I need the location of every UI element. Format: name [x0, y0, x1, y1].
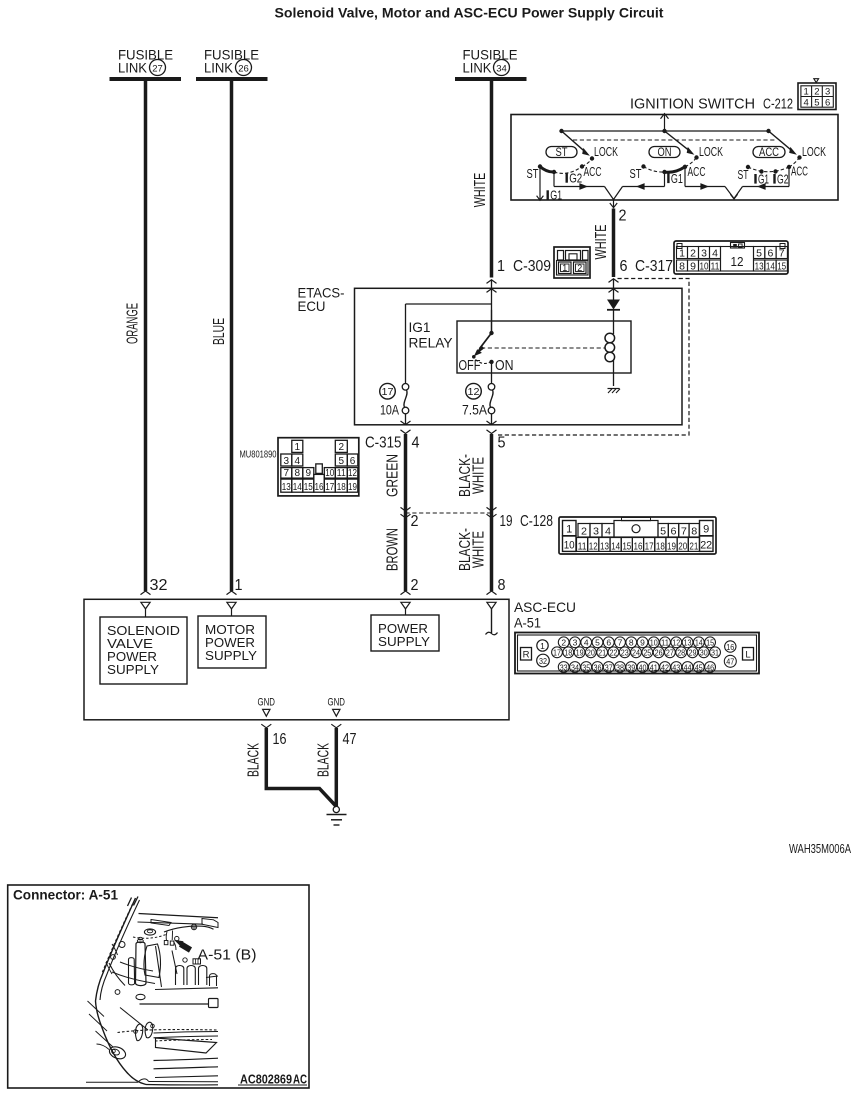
svg-text:C-309: C-309 [513, 258, 551, 275]
svg-text:20: 20 [587, 648, 595, 658]
svg-text:ON: ON [495, 357, 514, 374]
svg-text:2: 2 [411, 577, 419, 594]
intermediate connector dashed line [406, 512, 492, 514]
ETACS-ECU dashed enclosure [497, 279, 690, 436]
svg-text:ACC: ACC [791, 165, 808, 179]
svg-text:A-51: A-51 [514, 615, 541, 631]
connector crossing marks at pin 6 (C-317) [609, 279, 619, 293]
wire: fusible link 34 to ETACS-ECU (WHITE) [490, 79, 494, 278]
svg-text:ST: ST [630, 167, 642, 181]
svg-text:WAH35M006A: WAH35M006A [789, 841, 851, 856]
vehicle illustration: cowl and hood lines [138, 914, 219, 928]
section ON: contact arc [641, 158, 696, 175]
svg-text:32: 32 [150, 577, 168, 594]
svg-text:1: 1 [804, 87, 809, 98]
IG1 collector rail [554, 183, 789, 190]
svg-text:WHITE: WHITE [471, 457, 488, 494]
crossing mark pin 16 [261, 724, 271, 728]
svg-text:27: 27 [152, 64, 163, 75]
svg-text:IG1: IG1 [409, 319, 431, 335]
wire color label BLACK (16) [246, 743, 263, 777]
wire color label WHITE [593, 225, 610, 260]
svg-text:34: 34 [571, 662, 579, 672]
svg-text:2: 2 [577, 263, 582, 273]
section ON: terminal labels [630, 165, 706, 186]
svg-text:4: 4 [584, 638, 589, 648]
connector crossing marks at pin 1 (C-309) [487, 280, 497, 293]
svg-text:12: 12 [589, 540, 598, 552]
svg-text:A-51 (B): A-51 (B) [198, 947, 257, 964]
svg-text:ASC-ECU: ASC-ECU [514, 599, 576, 615]
svg-text:1: 1 [497, 258, 505, 275]
pin 8 entry with coil tail [486, 591, 498, 635]
svg-text:10: 10 [325, 468, 334, 479]
svg-text:42: 42 [661, 662, 669, 672]
svg-text:2: 2 [561, 638, 566, 648]
svg-text:ACC: ACC [759, 147, 779, 159]
svg-text:6: 6 [825, 97, 830, 108]
wire color label BLACK-WHITE [457, 454, 488, 497]
svg-text:3: 3 [284, 456, 290, 467]
output funnel to terminal 2 [605, 187, 623, 208]
svg-text:19: 19 [576, 648, 584, 658]
section ST: contact arc [538, 159, 592, 175]
relay coil [605, 310, 615, 386]
svg-text:9: 9 [640, 638, 645, 648]
svg-text:3: 3 [701, 247, 707, 259]
svg-text:9: 9 [703, 524, 709, 536]
svg-text:6: 6 [671, 526, 677, 538]
svg-text:18: 18 [337, 482, 346, 493]
pin 4 label [412, 435, 420, 452]
svg-text:16: 16 [726, 642, 734, 652]
svg-text:7: 7 [779, 247, 785, 259]
pin 1 label [235, 577, 243, 594]
svg-text:Connector: A-51: Connector: A-51 [13, 887, 118, 903]
svg-text:3: 3 [825, 87, 830, 98]
output funnel (ACC branch) [725, 187, 743, 200]
svg-text:17: 17 [325, 482, 334, 493]
svg-text:19: 19 [667, 540, 676, 552]
svg-text:G2: G2 [569, 172, 582, 186]
svg-text:8: 8 [629, 638, 634, 648]
wire color label GREEN [385, 454, 402, 497]
svg-text:8: 8 [679, 260, 685, 272]
svg-text:9: 9 [306, 468, 312, 479]
fusible link 26 [196, 47, 268, 80]
svg-text:4: 4 [605, 526, 611, 538]
svg-text:2: 2 [339, 442, 345, 453]
svg-text:10: 10 [650, 638, 658, 648]
A-51 (B) label [198, 947, 257, 964]
svg-text:ON: ON [658, 147, 672, 159]
relay OFF/ON contacts [459, 357, 514, 374]
svg-text:2: 2 [690, 247, 696, 259]
svg-text:21: 21 [689, 540, 698, 552]
svg-text:3: 3 [573, 638, 578, 648]
svg-text:LINK: LINK [118, 60, 148, 76]
svg-text:BLACK: BLACK [246, 743, 263, 777]
vehicle illustration: hood and A-pillar [96, 897, 140, 1002]
vehicle illustration: left fender details [106, 962, 145, 1000]
pin 2 label at ASC [411, 577, 419, 594]
svg-text:13: 13 [600, 540, 609, 552]
svg-text:ORANGE: ORANGE [125, 303, 142, 344]
svg-text:G1: G1 [671, 172, 683, 186]
svg-text:27: 27 [666, 648, 674, 658]
svg-text:33: 33 [560, 662, 568, 672]
svg-text:1: 1 [566, 524, 572, 536]
power supply block [371, 615, 439, 651]
svg-text:ACC: ACC [584, 165, 602, 179]
svg-text:16: 16 [273, 731, 287, 748]
svg-text:9: 9 [690, 260, 696, 272]
svg-text:25: 25 [643, 648, 651, 658]
svg-text:7.5A: 7.5A [462, 402, 487, 417]
svg-text:GND: GND [328, 696, 346, 708]
svg-text:WHITE: WHITE [471, 531, 488, 568]
ignition switch supply bus [559, 129, 770, 133]
interlock dashed line [573, 139, 777, 141]
svg-text:2: 2 [581, 526, 587, 538]
switch section ST: position oval [546, 147, 577, 160]
wire: ETACS pin 4 to junction (GREEN) [404, 434, 408, 513]
svg-text:47: 47 [343, 731, 357, 748]
vehicle illustration: intake and engine top [155, 958, 218, 990]
svg-text:G1: G1 [550, 188, 562, 202]
IG1 relay box [457, 321, 631, 373]
svg-text:16: 16 [634, 540, 643, 552]
vehicle illustration: radiator support lines [120, 999, 218, 1031]
vehicle illustration: engine bay components [111, 924, 214, 987]
svg-text:7: 7 [681, 526, 687, 538]
connector location box [8, 885, 309, 1088]
svg-text:6: 6 [350, 456, 356, 467]
diagram code WAH35M006A [789, 841, 851, 856]
relay coil ground [608, 389, 621, 394]
svg-text:2: 2 [619, 208, 627, 225]
svg-text:14: 14 [766, 260, 775, 272]
svg-text:BROWN: BROWN [385, 528, 402, 571]
svg-text:13: 13 [755, 260, 764, 272]
section ACC: LOCK contact and blade [769, 131, 827, 160]
svg-text:LOCK: LOCK [802, 145, 826, 159]
pin 32 label [150, 577, 168, 594]
svg-text:5: 5 [498, 435, 506, 452]
svg-text:ACC: ACC [688, 165, 706, 179]
svg-text:2: 2 [814, 87, 819, 98]
svg-text:1: 1 [295, 442, 301, 453]
wire color label BLACK (47) [316, 743, 333, 777]
svg-text:8: 8 [498, 577, 506, 594]
svg-text:30: 30 [700, 648, 708, 658]
A-51 (B) pointer arrow [174, 940, 191, 950]
connector C-212 [798, 79, 836, 110]
svg-text:ST: ST [556, 147, 568, 159]
relay actuation dashed link [481, 347, 605, 349]
wire: relay ON contact to fuse 12 [491, 362, 493, 384]
vehicle illustration: bumper and grille [88, 1001, 219, 1085]
svg-text:13: 13 [684, 638, 692, 648]
svg-text:15: 15 [706, 638, 714, 648]
pin 16 label [273, 731, 287, 748]
pin 5 label [498, 435, 506, 452]
ETACS-ECU box [355, 288, 683, 425]
svg-text:LINK: LINK [204, 60, 234, 76]
branch to fuse 17 [406, 304, 492, 384]
switch section ON: position oval [649, 147, 680, 160]
junction pin 2 label [411, 513, 419, 530]
section ACC: contact arc [746, 158, 800, 174]
svg-text:G2: G2 [777, 173, 789, 187]
svg-text:ST: ST [738, 168, 749, 182]
wire color label WHITE [472, 173, 489, 208]
svg-text:26: 26 [238, 64, 249, 75]
C-315 label [365, 435, 402, 452]
wire: ETACS pin 5 to junction (BLACK-WHITE) [490, 434, 494, 513]
wire color label BLACK-WHITE [457, 528, 488, 571]
illustration code AC802869AC [240, 1072, 307, 1087]
svg-text:ST: ST [527, 167, 539, 181]
svg-text:5: 5 [660, 526, 666, 538]
svg-text:34: 34 [496, 64, 507, 75]
section ON: stems [665, 167, 686, 187]
IG1 relay label [409, 319, 454, 351]
svg-text:43: 43 [672, 662, 680, 672]
svg-text:SUPPLY: SUPPLY [107, 662, 159, 677]
svg-text:4: 4 [412, 435, 420, 452]
svg-text:7: 7 [618, 638, 623, 648]
crossing mark pin 47 [331, 724, 341, 728]
chassis ground [327, 806, 347, 825]
bus feed arrow (to top) [661, 114, 669, 131]
wire: fusible link 26 to ASC-ECU pin 1 (BLUE) [230, 79, 234, 591]
svg-text:RELAY: RELAY [409, 335, 454, 351]
connector C-315 [240, 438, 359, 496]
ignition switch box [511, 115, 838, 201]
svg-text:C-315: C-315 [365, 435, 402, 452]
svg-text:36: 36 [593, 662, 601, 672]
svg-text:47: 47 [726, 657, 734, 667]
svg-text:SUPPLY: SUPPLY [205, 648, 257, 663]
svg-text:11: 11 [578, 540, 587, 552]
wire inside ETACS from pin 1 to relay [491, 280, 493, 333]
wire: junction to ASC pin 8 (BLACK-WHITE) [490, 513, 494, 591]
svg-text:37: 37 [605, 662, 613, 672]
svg-text:10: 10 [700, 260, 709, 272]
svg-text:11: 11 [661, 638, 669, 648]
svg-text:5: 5 [339, 456, 345, 467]
svg-text:6: 6 [620, 258, 628, 275]
svg-text:14: 14 [293, 482, 302, 493]
svg-text:1: 1 [235, 577, 243, 594]
connector C-128 [559, 517, 716, 554]
svg-text:5: 5 [595, 638, 600, 648]
svg-text:5: 5 [814, 97, 819, 108]
svg-text:40: 40 [639, 662, 647, 672]
connector C-309 [554, 247, 590, 278]
connector location title [13, 887, 118, 903]
svg-text:ECU: ECU [298, 298, 326, 314]
fuse 17 [380, 383, 409, 417]
svg-text:28: 28 [677, 648, 685, 658]
svg-text:L: L [745, 649, 750, 660]
svg-text:11: 11 [711, 260, 720, 272]
svg-text:38: 38 [616, 662, 624, 672]
svg-text:10A: 10A [380, 402, 399, 417]
svg-text:6: 6 [767, 247, 773, 259]
svg-text:1: 1 [562, 263, 567, 273]
svg-text:3: 3 [593, 526, 599, 538]
svg-text:GND: GND [258, 696, 276, 708]
wire color label BLUE [211, 318, 228, 345]
svg-text:MU801890: MU801890 [240, 449, 277, 461]
junction 6 C-317 label [620, 258, 674, 275]
svg-text:2: 2 [411, 513, 419, 530]
pin 1 entry [227, 591, 237, 616]
svg-text:7: 7 [284, 468, 290, 479]
connector crossing marks at pin 4 [401, 421, 411, 434]
svg-text:41: 41 [650, 662, 658, 672]
svg-text:32: 32 [539, 656, 547, 666]
junction pin 19 / C-128 label [500, 513, 554, 530]
ignition switch label [630, 96, 793, 113]
pin 8 label at ASC [498, 577, 506, 594]
svg-text:8: 8 [691, 526, 697, 538]
solenoid valve power supply block [100, 617, 187, 684]
wires from fuses to box edge [406, 414, 492, 425]
svg-text:1: 1 [679, 247, 685, 259]
section ST: ST output wire [537, 167, 544, 201]
ETACS-ECU label [298, 285, 345, 315]
diode [607, 279, 620, 310]
svg-text:19: 19 [348, 482, 357, 493]
svg-text:44: 44 [684, 662, 692, 672]
svg-text:14: 14 [695, 638, 703, 648]
svg-text:IGNITION SWITCH: IGNITION SWITCH [630, 96, 755, 113]
svg-text:17: 17 [553, 648, 561, 658]
svg-text:OFF: OFF [459, 357, 481, 374]
relay switch arm [472, 310, 494, 359]
svg-text:19: 19 [500, 513, 513, 530]
GND terminal 47 [328, 696, 346, 716]
section ST: terminal labels [527, 165, 602, 202]
svg-text:WHITE: WHITE [593, 225, 610, 260]
svg-text:17: 17 [382, 386, 394, 398]
wire: ignition switch to ETACS-ECU (WHITE) [612, 209, 616, 278]
svg-text:10: 10 [564, 540, 575, 552]
svg-text:BLUE: BLUE [211, 318, 228, 345]
svg-text:35: 35 [582, 662, 590, 672]
crossing marks at junction pin 2 [401, 507, 411, 517]
vehicle illustration: ground line [86, 1079, 218, 1082]
svg-text:26: 26 [655, 648, 663, 658]
svg-text:23: 23 [621, 648, 629, 658]
wire color label BROWN [385, 528, 402, 571]
motor power supply block [198, 616, 266, 668]
svg-text:29: 29 [688, 648, 696, 658]
section ACC: terminal labels [738, 165, 809, 187]
fusible link 27 [110, 47, 182, 80]
svg-text:4: 4 [804, 97, 809, 108]
svg-text:21: 21 [598, 648, 606, 658]
svg-text:18: 18 [564, 648, 572, 658]
svg-text:12: 12 [672, 638, 680, 648]
svg-text:15: 15 [304, 482, 313, 493]
svg-text:22: 22 [700, 540, 712, 552]
wire: fusible link 27 to ASC-ECU pin 32 (ORANGE) [144, 79, 148, 591]
svg-text:WHITE: WHITE [472, 173, 489, 208]
pin 47 label [343, 731, 357, 748]
svg-text:39: 39 [627, 662, 635, 672]
svg-text:4: 4 [712, 247, 718, 259]
connector crossing marks at pin 5 [487, 421, 497, 434]
svg-text:AC: AC [293, 1072, 307, 1087]
section ST: LOCK contact and blade [562, 131, 619, 161]
svg-text:8: 8 [295, 468, 301, 479]
svg-text:20: 20 [678, 540, 687, 552]
svg-text:14: 14 [611, 540, 620, 552]
svg-text:24: 24 [632, 648, 640, 658]
svg-text:LOCK: LOCK [699, 145, 723, 159]
svg-text:5: 5 [756, 247, 762, 259]
svg-text:LINK: LINK [463, 60, 493, 76]
svg-text:GREEN: GREEN [385, 454, 402, 497]
connector A-51 face view [515, 633, 759, 674]
svg-text:12: 12 [468, 386, 480, 398]
svg-text:6: 6 [606, 638, 611, 648]
svg-text:12: 12 [731, 254, 744, 269]
junction 1 C-309 label [497, 258, 551, 275]
ASC-ECU label [514, 599, 576, 631]
svg-text:16: 16 [315, 482, 324, 493]
svg-text:1: 1 [540, 641, 545, 651]
svg-text:22: 22 [609, 648, 617, 658]
ASC-ECU box [84, 599, 509, 720]
svg-text:11: 11 [337, 468, 346, 479]
wire: junction to ASC pin 2 (BROWN) [404, 513, 408, 591]
section ST: IG feed stem [553, 172, 555, 187]
svg-text:15: 15 [777, 260, 786, 272]
code underline [238, 1084, 307, 1086]
section ON: LOCK contact and blade [665, 131, 724, 160]
ground wire 47 (BLACK) [335, 728, 339, 807]
svg-text:17: 17 [645, 540, 654, 552]
fusible link 34 [455, 47, 527, 80]
svg-text:C-128: C-128 [520, 513, 553, 530]
svg-text:15: 15 [622, 540, 631, 552]
svg-text:C-212: C-212 [763, 96, 793, 113]
svg-text:12: 12 [348, 468, 357, 479]
ground wire 16 (BLACK) [266, 728, 336, 807]
pin 32 entry [141, 591, 151, 617]
switch section ACC: position oval [753, 147, 785, 160]
crossing marks at junction pin 19 [487, 507, 497, 517]
connector C-317 [674, 241, 788, 274]
GND terminal 16 [258, 696, 276, 716]
fuse 12 [462, 383, 495, 417]
section ACC: stem [788, 167, 790, 187]
svg-text:46: 46 [706, 662, 714, 672]
svg-text:R: R [523, 649, 530, 660]
wire color label ORANGE [125, 303, 142, 344]
svg-text:C-317: C-317 [635, 258, 673, 275]
svg-text:45: 45 [695, 662, 703, 672]
terminal 2 label [619, 208, 627, 225]
svg-text:LOCK: LOCK [594, 145, 618, 159]
pin 2 entry [401, 591, 411, 615]
svg-text:SUPPLY: SUPPLY [378, 634, 430, 649]
